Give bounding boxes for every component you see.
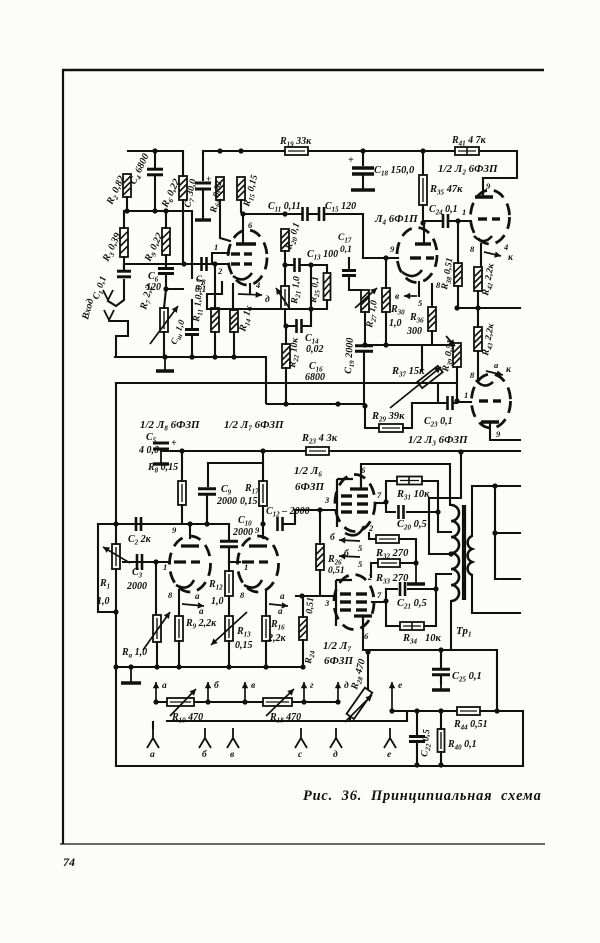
node R22 bottom [283,401,288,406]
divider R41 [466,147,468,155]
wire Л7л cathode lead [265,590,267,616]
grid dashes Л3 [479,399,488,402]
resistor R38 0,51 [454,263,462,286]
node C20 right [435,509,440,514]
resistor R16 2,2к [262,616,270,641]
wire R11 leads [214,264,216,357]
resistor R17 0,15 [259,481,267,506]
capacitor C14 0,02 [297,319,302,333]
node R1 top [113,521,118,526]
svg-text:1/2 Л7 6ФЗП: 1/2 Л7 6ФЗП [224,419,284,433]
grid box Л6 [337,479,353,527]
svg-text:С21 0,5: С21 0,5 [397,598,427,611]
grid dashes Л7п [340,592,351,595]
anode stem Л6 [360,475,362,489]
wire R22 leads [285,326,287,404]
svg-text:а: а [280,591,285,601]
node R30 top [383,255,388,260]
node R11 bottom [212,354,217,359]
ladder arrow б [205,682,211,702]
node secondary tap top [492,483,497,488]
wire rail 404 [267,403,365,405]
svg-text:R29 39к: R29 39к [371,411,405,424]
svg-text:4 0,0: 4 0,0 [138,445,159,456]
wiper arrow R1 [103,547,130,563]
wire R9 leads [165,211,167,267]
ladder arrow в [242,682,248,702]
node secondary tap mid [492,530,497,535]
resistor R35 47к [419,175,427,205]
potentiometer R27 1,0 [361,290,369,312]
svg-text:R19 33к: R19 33к [279,136,312,149]
node primary centre tap [448,551,453,556]
node bus input gnd [162,354,167,359]
wire rail 451 left [161,450,306,452]
node Л3 grid [454,398,459,403]
output fork а [147,728,159,748]
anode bar Л6 [350,487,368,490]
wire R32 right lead [399,539,416,563]
svg-text:R10 470: R10 470 [171,712,203,725]
svg-text:+: + [171,438,177,449]
node C8 right / R11 top [212,261,217,266]
wire Л1 cathode-heater lead [249,284,251,293]
resistor R24 0,51 [299,617,307,640]
node R2 bottom [124,208,129,213]
resistor R34 10к [400,622,424,630]
wire R2 bottom lead [126,197,128,211]
wire C1 lower lead [108,280,124,306]
wire R21 leads [284,265,286,326]
svg-text:2000: 2000 [216,496,237,507]
node C22 bottom [414,762,419,767]
wire R15 bottom lead [241,200,243,214]
wire Л4 grid row [363,257,398,259]
svg-text:Рис. 36. Принципиальная схе: Рис. 36. Принципиальная схема [303,788,542,804]
wire R29 right lead [403,403,412,428]
resistor R32 270 [376,535,399,543]
wiper arrow R7 [150,306,178,344]
resistor R25 0,1 [324,273,331,300]
node R64 top [217,148,222,153]
wire row 403 [412,402,457,404]
wire R38 leads [457,221,459,308]
wire C22 leads [416,711,418,765]
wire R26 leads [319,510,321,596]
potentiometer R18 470 [263,698,292,706]
wire secondary bottom lead [472,575,520,613]
wire C12 jog [284,510,295,524]
wire Сш bottom lead [191,335,193,357]
svg-text:2000: 2000 [126,581,147,592]
node R9к bottom [176,664,181,669]
tube Л6 [335,475,375,532]
wire primary bottom lead [450,601,452,650]
potentiometer R7 2,2 [160,308,168,332]
grid dashes Л1 row1 [231,252,240,255]
divider R34 [411,622,413,630]
ladder arrow г [301,682,307,702]
wire row 524 [98,523,229,525]
svg-text:6800: 6800 [305,372,325,383]
capacitor C15 120 [319,207,324,221]
capacitor C8 0,1 [202,257,207,271]
node R20 bottom [282,262,287,267]
resistor R23 4,3к [306,447,329,455]
wire Л1 pin1 stub [212,253,229,264]
node Л7п grid [299,593,304,598]
wire rail to pin9 drop [483,151,517,178]
wire Л1 cathode lead [232,284,234,310]
svg-text:1: 1 [163,562,167,572]
potentiometer Rа 1,0 [153,615,161,642]
capacitor C25 0,1 [432,669,450,675]
svg-text:4: 4 [503,242,508,252]
resistor R3 [120,228,128,257]
heater arrow б Л6 [339,537,360,543]
wire C6R7 stub [166,288,183,290]
wire pin1 row Л2 [423,221,471,223]
wire C17 leads [349,258,361,290]
transformer Тр1 secondary winding [468,536,472,575]
node R38 bottom [454,305,459,310]
capacitor C18 150,0 [352,168,374,174]
wiper arrow R21 [276,288,290,309]
svg-text:2: 2 [368,523,374,533]
svg-text:д: д [344,680,349,691]
wire C7 top lead [202,151,204,180]
ladder arrow а [153,682,159,702]
wire R43 leads [477,308,479,374]
wire R39 bottom lead [456,367,458,383]
pin9 bar Л7л [249,544,267,547]
node Л8 pin9 [187,521,192,526]
wire B+ rail left part [203,151,285,154]
node R44 left [438,708,443,713]
wire secondary top lead [472,486,520,536]
node rail451 drop [458,449,463,454]
capacitor Сш 1,0 [185,330,199,335]
input terminal fork 1 [104,310,114,322]
svg-text:Л4 6Ф1П: Л4 6Ф1П [374,213,418,227]
ground bus upper-left [115,357,266,403]
capacitor C17 0,1 [342,271,356,276]
resistor R29 39к [379,424,403,432]
svg-text:R35 47к: R35 47к [429,184,463,197]
wire C10 bottom lead [228,547,230,562]
node R6 grid row [181,261,186,266]
grid dashes Л6 [341,510,352,513]
svg-text:а: а [162,681,167,691]
node pin7 Л6 [383,499,388,504]
wire C9 bottom lead [206,494,208,524]
node bus left [113,664,118,669]
wire Л7п grid row [296,595,334,597]
wire row 711 [407,710,523,712]
resistor R42 2,2к [474,267,482,291]
cathode arc Л4 [402,270,422,276]
node ladder г [301,699,306,704]
svg-text:6ФЗП: 6ФЗП [324,655,353,667]
cathode arc Л7л [244,580,262,588]
node C21 right [433,586,438,591]
wire R7 top lead [164,289,166,357]
node R16 bottom [263,664,268,669]
capacitor C21 0,5 [400,582,405,596]
potentiometer R13 0,15 [225,616,233,641]
transformer Тр1 primary winding [451,505,459,601]
svg-text:г: г [310,681,314,691]
capacitor C3 2000 [137,554,142,570]
transformer Тр1 core [462,505,466,600]
capacitor C13 100 [295,258,300,272]
svg-text:300: 300 [406,326,422,337]
wire Л7л grid [229,561,240,563]
potentiometer R28 470 [347,688,373,719]
svg-text:С2 2к: С2 2к [128,534,152,547]
capacitor C10 2000 [220,541,238,547]
ground symbol on bus [156,357,174,371]
wire tap to winding [436,574,451,589]
node bus gnd [128,664,133,669]
potentiometer R21 1,0 [281,286,289,309]
node R32R33 junction [413,560,418,565]
capacitor C6 120 [158,269,174,274]
node C13 right [308,262,313,267]
svg-text:0,51: 0,51 [305,597,316,614]
cathode arc Л3 [476,380,493,386]
wire row 308 [457,307,520,309]
wire R14 bottom lead [233,332,235,357]
wire Л6 cathode lead [369,533,376,539]
wire row 326 [286,325,311,327]
svg-text:2,2к: 2,2к [267,633,287,644]
svg-text:4: 4 [255,280,260,290]
capacitor C2 2к [136,517,141,531]
pin9 bar Л2 [475,195,493,198]
capacitor C9 2000 [198,489,216,494]
svg-text:С11 0,11: С11 0,11 [268,201,301,214]
svg-text:R40 0,1: R40 0,1 [447,739,477,752]
svg-text:С12 – 2000: С12 – 2000 [266,506,310,519]
node C9 bottom [204,521,209,526]
wire R31 loop left [386,481,397,502]
node R24 bottom [300,664,305,669]
svg-text:д: д [333,749,338,760]
resistor R9 0,22 [162,228,170,255]
wiper arrow R39 [446,336,455,346]
resistor R20 0,1 [281,229,289,251]
grid dashes Л7п [340,600,351,603]
wire C6 bottom lead [165,274,167,289]
wire R12 leads [228,562,230,616]
node R20 top [282,211,287,216]
wire Л4 pin5 lead [418,282,420,296]
wire rail 451 right [329,450,520,452]
wire Л1 anode lead [242,214,244,244]
wiper arrow Ra [143,612,170,650]
wiper arrow R18 [266,689,294,716]
resistor R9 2,2к [175,616,183,641]
wire R36 leads [431,284,433,345]
wire Л2 pin9 lead [482,178,484,195]
svg-text:С15 120: С15 120 [325,201,356,214]
wire R24 leads [302,596,304,667]
wire rail 383 [116,382,457,384]
wire bottom bus [116,765,523,767]
wire C18 bottom lead [362,174,364,188]
grid dashes Л2 [478,217,487,220]
svg-text:С13 100: С13 100 [307,249,338,262]
wiper arrow R13 [211,612,247,645]
wire Л6 grid row [295,509,337,511]
tube Л7 right half [334,575,374,630]
heater arrow к Л3 [486,371,503,377]
ground bus lower [116,666,303,668]
node ladder а [153,699,158,704]
wire left rail R1 col [115,383,117,766]
svg-text:1: 1 [462,207,466,217]
grid box Л7п [336,580,352,626]
svg-text:1/2 Л3 6ФЗП: 1/2 Л3 6ФЗП [408,434,468,448]
grid dashes Л1 row2 [231,262,240,265]
ground symbol lower bus [121,667,141,683]
svg-text:С18 150,0: С18 150,0 [374,165,415,178]
heater arrow а Л8 [182,602,204,608]
anode bar Л7п [354,614,372,617]
node C19 top [362,342,367,347]
output fork е [384,728,396,748]
grid dashes Л7л [242,560,254,563]
svg-text:С25 0,1: С25 0,1 [452,671,482,684]
svg-text:1: 1 [464,390,468,400]
resistor R26 0,51 [316,544,324,570]
wire anode row 214 [243,214,363,258]
svg-text:+: + [206,174,211,184]
svg-text:3: 3 [324,495,330,505]
svg-text:а: а [195,591,200,601]
capacitor C22 0,5 [409,737,425,742]
node C3 right [153,559,158,564]
wiper arrow R37 [390,367,441,408]
potentiometer R39 0,51 [453,343,461,367]
resistor R11 [211,308,219,332]
ground below C7 [195,190,211,220]
svg-text:1/2 Л2 6Ф3П: 1/2 Л2 6Ф3П [438,163,498,177]
wiper arrow R10 [170,689,196,716]
ground below C25 [432,678,450,690]
svg-text:R9 2,2к: R9 2,2к [185,618,217,631]
wire ladder row [156,701,338,703]
svg-text:0,02: 0,02 [306,344,324,355]
anode bar Л1 [236,242,256,245]
wire Л2 cathode lead [480,244,482,267]
cathode arc Л8 [176,580,194,588]
resistor R15 [237,177,245,200]
grid dashes Л6 [341,502,352,505]
output fork б [199,728,211,748]
potentiometer R37 15к [417,366,442,388]
wire input staircase [111,321,165,357]
anode stem Л7п [362,616,364,631]
resistor R22 10к [282,344,290,368]
wire 463 link [208,462,263,464]
capacitor C20 0,5 [399,505,404,519]
wire secondary tap column [495,486,520,579]
wire R13 bottom lead [228,641,230,667]
node R1 loop bottom [113,609,118,614]
wire Л3 grid row [457,401,471,403]
wiper arrow R27 [355,288,377,308]
svg-text:1,0: 1,0 [97,596,110,607]
divider R31 [408,477,410,485]
svg-text:3: 3 [324,598,330,608]
heater arrow в Л4 [404,293,417,299]
node C19 bottom [362,403,367,408]
wire R3 leads [123,211,125,268]
wire node row 211 [124,211,192,255]
wire R35 bottom lead [422,205,424,223]
wire Л8 grid [123,561,170,563]
wire Л7п cathode lead [371,563,378,577]
svg-text:74: 74 [63,855,75,869]
node ladder д [335,699,340,704]
wire R28 bottom lead [349,717,351,721]
input terminal fork 2 [103,290,113,300]
wire grid drop to Ra [155,562,157,615]
node R14 bottom [231,354,236,359]
wire B+ rail right part [308,150,517,152]
resistor R36 300 [428,307,436,331]
ground below C18 [351,174,375,190]
heater arrow к Л2 [484,252,501,258]
wire C19 to R29 [365,406,379,428]
svg-text:0,51: 0,51 [328,566,345,576]
output fork с [295,728,307,748]
node C14 left [283,323,288,328]
node rail451 R17 [260,448,265,453]
node C24/R35/anode [420,220,425,225]
wire R64 bottom lead [220,200,230,241]
resistor R6 [179,176,187,200]
capacitor C5 40,0 [153,443,169,449]
wire R30 leads [385,258,387,345]
ground below C5 [153,449,169,464]
wire C25 leads [440,650,442,684]
ground R32R33 [407,563,425,584]
wire row 345 [363,344,457,346]
node R17 bottom [260,521,265,526]
anode bar Л3 [481,420,499,423]
svg-text:2000: 2000 [232,527,253,538]
wire R8 leads [181,451,183,524]
wire R6 bottom lead [182,200,184,264]
svg-text:С20 0,5: С20 0,5 [397,519,427,532]
wire R6 top lead [182,151,184,176]
svg-text:1/2 Л6: 1/2 Л6 [294,465,322,479]
svg-text:R37 15к: R37 15к [391,366,425,379]
heater arrow б Л7п [339,553,360,559]
wire Л7л pin9 stem [262,524,264,538]
grid dashes Л7п [340,608,351,611]
resistor R43 2,2к [474,327,482,351]
svg-text:R18 470: R18 470 [269,712,301,725]
node R44 right [494,708,499,713]
output fork д [330,728,342,748]
wire R20 bottom lead [284,251,286,265]
ladder arrow е [389,682,395,711]
svg-text:1,0: 1,0 [211,596,224,607]
